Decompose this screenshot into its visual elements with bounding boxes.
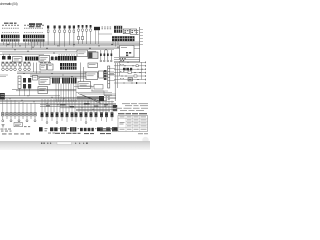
fuse F5 (69, 26, 71, 46)
connector CN17 (80, 128, 94, 131)
connector CN11 (71, 78, 77, 84)
right panel riser F (117, 63, 119, 88)
wires to ignition switch (114, 58, 140, 62)
stub wires left (0, 75, 8, 77)
accessory row wire 6 (114, 82, 146, 84)
bottom device row group 2 (41, 113, 77, 124)
connector CN16 (70, 127, 76, 131)
accessory row wire 4 with switch S7 (114, 75, 146, 81)
relay K1 (94, 27, 100, 44)
wires from CN1 to bus (4, 42, 44, 50)
sensor S17 (51, 113, 53, 122)
diode D3 (51, 57, 54, 61)
spark plug P1 (100, 50, 102, 60)
right panel riser E (114, 63, 116, 101)
label text right of contact row (136, 30, 139, 35)
connector CN15 (60, 127, 67, 131)
diode D1 (2, 54, 6, 60)
connector CN2 (78, 25, 80, 44)
notes text block (116, 103, 148, 111)
spark plug P4 (111, 50, 113, 60)
watermark blob (142, 137, 148, 143)
auxiliary relay U6b (33, 76, 38, 81)
motor M6 (95, 113, 97, 123)
wires below contact row (113, 41, 118, 46)
motor M3 (80, 113, 82, 122)
spark plug caps (100, 60, 112, 62)
connector CN9 (52, 78, 60, 84)
battery BT1 (99, 96, 110, 101)
node labels top right (102, 27, 112, 30)
connector CN12 (104, 70, 107, 80)
connector CN3 (82, 25, 84, 44)
right boundary wire (139, 27, 141, 62)
switch S3 (130, 29, 136, 34)
switch S11 (14, 113, 16, 120)
harness tag labels (29, 23, 42, 27)
lamp L3 (10, 62, 13, 71)
accessory column wire (120, 62, 142, 79)
accessory row wire 0 (114, 61, 146, 63)
fuse F1 (47, 26, 49, 46)
ignition switch S1 (114, 26, 122, 33)
switch contact S6a (28, 78, 31, 83)
connector block CN6 (25, 57, 38, 61)
lamp L6 (24, 62, 27, 71)
connector CN1 name labels (2, 24, 44, 27)
switch contact S5a (23, 78, 26, 83)
lamp L7 (28, 62, 31, 71)
wire harness diagonal (78, 94, 100, 104)
regulator U3 (39, 56, 50, 63)
bottom device row group 1 (2, 113, 37, 122)
harness code text row (45, 128, 106, 133)
switch S14b (30, 113, 32, 120)
pickup coil unit U5 (88, 63, 98, 68)
handlebar switch S4 housing (18, 76, 21, 89)
connector CN18 (97, 127, 118, 131)
resistor ladder R1 (108, 66, 110, 88)
rectifier U8 (86, 72, 98, 80)
diode D2 (8, 54, 12, 60)
wire riser C (80, 63, 82, 82)
left header text (4, 23, 17, 24)
table title text (118, 113, 147, 114)
sensor S20 (66, 113, 68, 123)
junction box outline (94, 85, 103, 90)
lower bus junctions (9, 95, 105, 110)
boundary stub wires (140, 30, 143, 45)
wire code text bottom center (100, 128, 117, 131)
lamp L2 (6, 62, 9, 71)
meter label text (40, 61, 51, 64)
ground bus G1 (77, 97, 99, 100)
sensor S15 (41, 113, 43, 122)
starter relay U7 (38, 87, 48, 94)
wire drops center (56, 84, 76, 102)
switch S14 (26, 113, 28, 122)
accessory row wire 1 (114, 64, 146, 67)
meter assembly M2 (48, 64, 54, 70)
accessory row wire 3 (114, 71, 146, 74)
junction dots below switch box (119, 58, 125, 61)
toolbar nav dots (75, 143, 88, 144)
diode D4 (55, 57, 58, 61)
motor M8 (105, 113, 107, 123)
connector CN4 (86, 25, 88, 44)
switch S13 (22, 113, 24, 120)
CDI unit U10 (78, 82, 91, 89)
main switch box S16 (120, 46, 135, 58)
toolbar icon cluster (41, 143, 51, 144)
connector CN1 wire color labels (2, 31, 43, 34)
motor M9 (111, 113, 113, 122)
meter assembly M1 (40, 64, 47, 70)
component labels bottom left (1, 126, 31, 131)
wire riser B (36, 63, 38, 74)
switch contact S5b (23, 84, 26, 89)
fuse F6 (73, 26, 75, 47)
main harness bus wires (0, 42, 140, 54)
switch S2 (123, 29, 129, 34)
wire riser A (33, 63, 35, 73)
igniter unit U4 (77, 50, 88, 57)
switch contact S6b (28, 84, 31, 89)
spark plug P3 (107, 50, 109, 60)
horn H1 (0, 93, 5, 100)
wires below handlebar switch (20, 89, 30, 96)
connector block CN8 (60, 63, 77, 70)
lower harness bus (0, 89, 116, 111)
switch S9 (6, 113, 8, 120)
switch S10 (10, 113, 12, 122)
sensor U9 (99, 71, 104, 78)
fuse F2 (54, 26, 56, 46)
connector block CN1 row A (1, 35, 45, 39)
sensor S16 (46, 113, 48, 124)
secondary bus junctions (23, 71, 103, 77)
connector CN19 (113, 105, 117, 111)
sensor S18 (56, 113, 58, 124)
wire regulator to CN7 (50, 58, 59, 60)
secondary bus wires (17, 72, 114, 78)
component name labels bottom (2, 133, 111, 135)
upper link wires right (100, 96, 116, 99)
accessory row wire 2 with fuse F7 (114, 68, 146, 71)
wire riser D (83, 67, 85, 82)
switch S12 (18, 113, 20, 122)
wire color table (118, 116, 148, 132)
viewer toolbar (0, 141, 150, 150)
flasher relay U2 (13, 57, 23, 63)
connector CN1 pin labels (2, 27, 43, 30)
spark plug P2 (104, 50, 106, 60)
riser connector boxes (77, 37, 83, 40)
motor M7 (100, 113, 102, 122)
motor M5 (90, 113, 92, 122)
bottom device row group 3 (80, 113, 113, 124)
lamp L4 (14, 62, 17, 71)
connector CN10 (62, 78, 70, 84)
label box bottom left (14, 123, 23, 127)
motor M4 (85, 113, 87, 124)
connector CN5 (90, 25, 92, 44)
inline connector marks on lower bus (46, 103, 108, 107)
connector block CN1 row B (1, 39, 45, 41)
switch S8 (2, 113, 4, 122)
fuse F3 (59, 26, 61, 47)
center harness link wires (74, 86, 116, 95)
sensor S21 (71, 113, 73, 122)
wire relay to switch (99, 33, 113, 35)
wire drops to bottom components (3, 99, 112, 113)
lamp L1 (2, 62, 5, 71)
ground symbol G2 (2, 125, 5, 128)
sensor S19 (61, 113, 63, 122)
ignition switch contact row (112, 36, 135, 41)
fuse F4 (64, 26, 66, 47)
connector block CN7 (58, 55, 77, 61)
sensor S22 (75, 113, 77, 123)
footer note text (138, 132, 148, 135)
connector CN14 (50, 127, 58, 131)
svg-text:chematic (04): chematic (04) (0, 2, 17, 6)
accessory row wire 5 (114, 78, 146, 80)
ignition coil T1 (88, 52, 98, 59)
connector CN13 (39, 127, 43, 131)
ladder stub wires (110, 69, 115, 81)
harness bus junctions (7, 44, 133, 54)
lamp L5 (19, 62, 22, 71)
turn signal relay U6 (39, 78, 50, 85)
switch S14c (34, 113, 36, 122)
toolbar page box (57, 142, 72, 145)
